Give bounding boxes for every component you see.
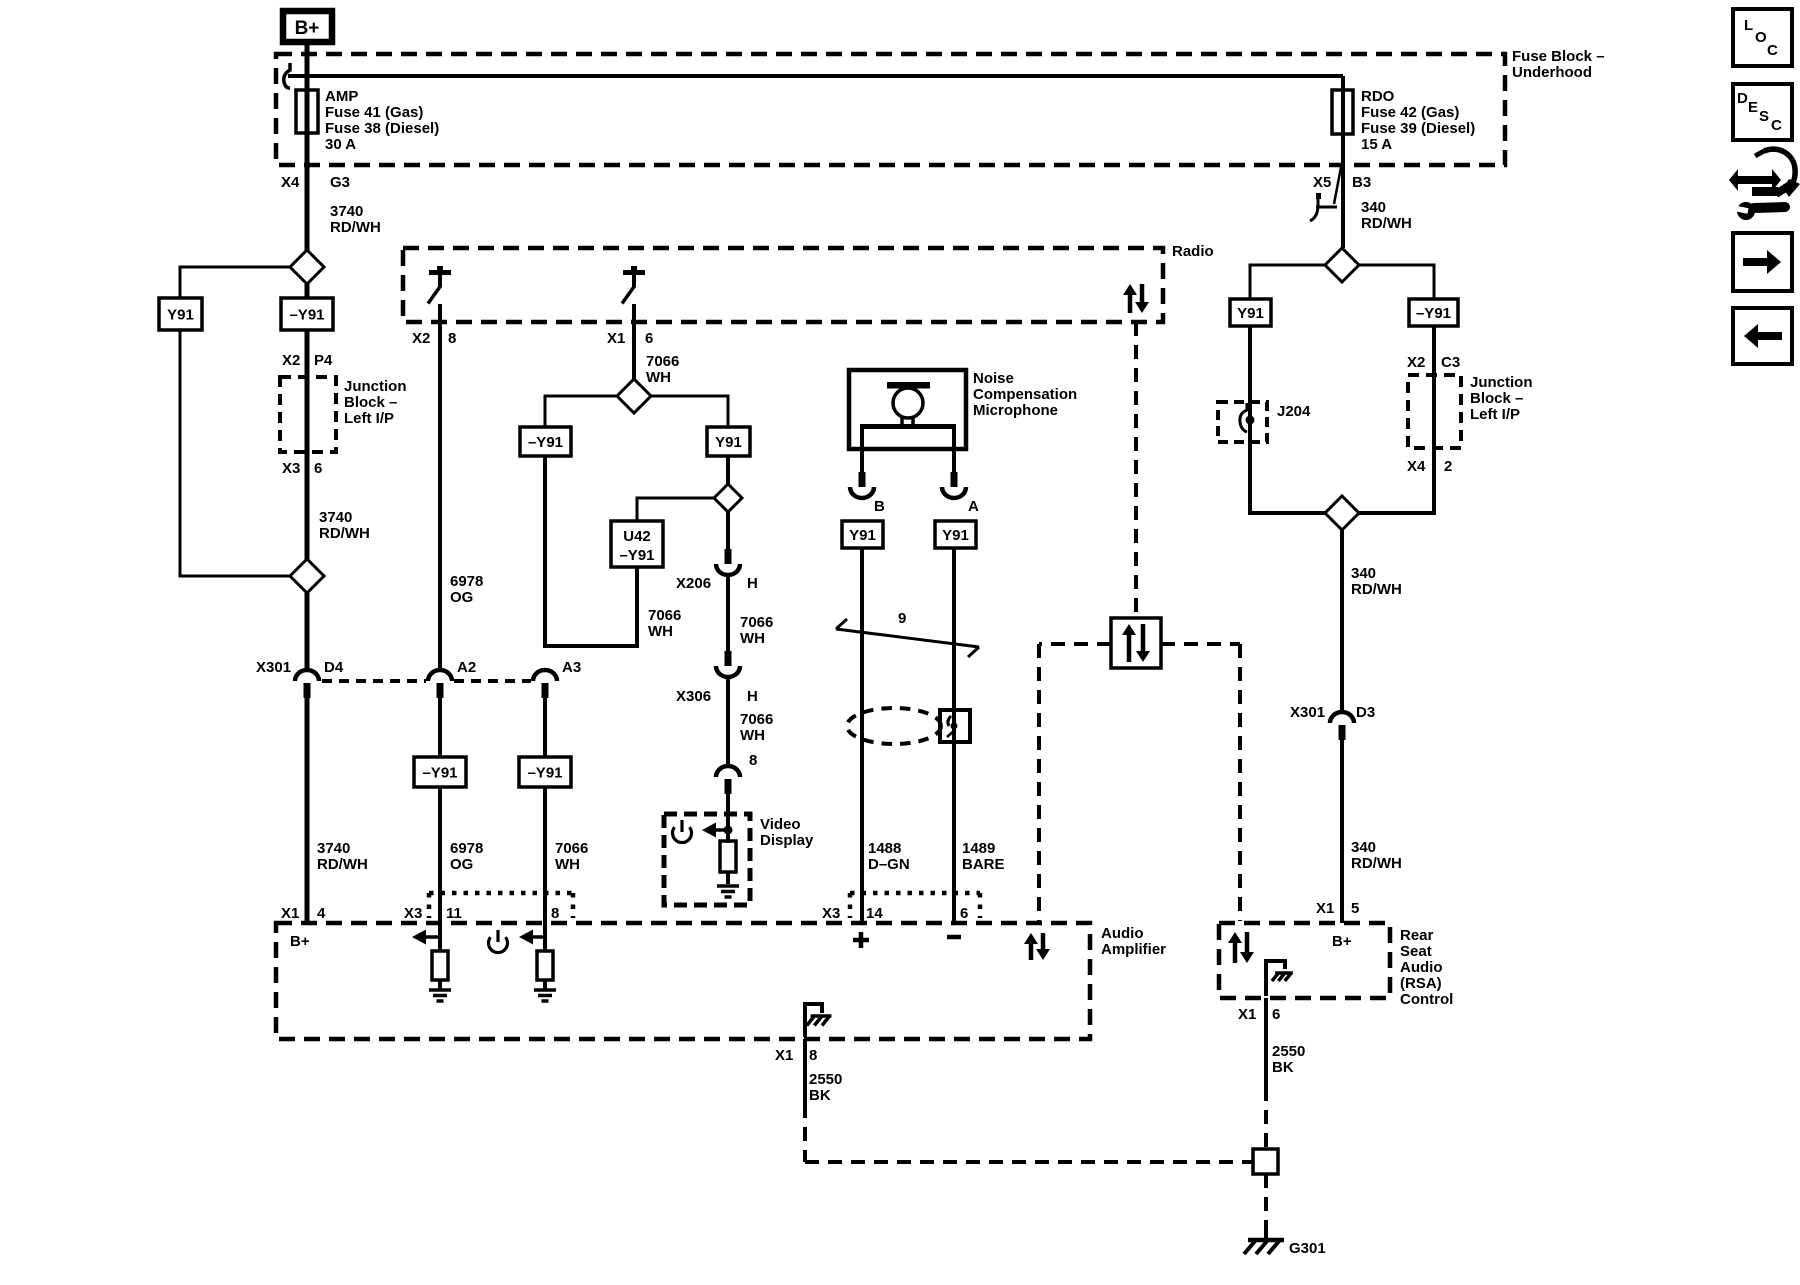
svg-text:S: S <box>1759 108 1769 125</box>
svg-text:WH: WH <box>740 727 765 744</box>
label Noise Compensation Microphone <box>973 370 1077 419</box>
svg-text:J204: J204 <box>1277 403 1311 420</box>
connector X1 pin 8 labels (amplifier ground) <box>775 1047 817 1064</box>
wire 7066 WH to amplifier X3-8 <box>543 787 547 923</box>
radio dashed box <box>403 248 1163 322</box>
wire Y91 right down to S6 <box>1248 326 1252 515</box>
svg-text:7066: 7066 <box>555 840 588 857</box>
svg-text:340: 340 <box>1361 199 1386 216</box>
connector -Y91 box (right) <box>1409 299 1458 326</box>
connector mic pin B label <box>874 498 885 515</box>
svg-text:RD/WH: RD/WH <box>330 219 381 236</box>
wire branch S3 to -Y91 (left) <box>545 396 618 427</box>
svg-text:3740: 3740 <box>319 509 352 526</box>
svg-text:X1: X1 <box>775 1047 793 1064</box>
svg-text:Block –: Block – <box>344 394 397 411</box>
audio amplifier dashed box <box>276 923 1090 1039</box>
wire 1488 D-GN (mic B to amplifier) <box>860 548 864 923</box>
svg-text:L: L <box>1744 17 1753 34</box>
svg-text:Fuse Block –: Fuse Block – <box>1512 48 1605 65</box>
svg-text:B+: B+ <box>295 18 320 39</box>
wire resistor to ground (video) <box>726 872 730 884</box>
twisted pair annotation line <box>836 619 979 657</box>
connector X5 pin B3 labels <box>1313 174 1371 191</box>
connector X1 pin 5 labels (RSA) <box>1316 900 1359 917</box>
wire 7066 WH below A3 <box>543 698 547 757</box>
amplifier pin 8 power symbol <box>488 930 507 953</box>
dashed link left to amplifier <box>1039 644 1111 921</box>
svg-text:8: 8 <box>448 330 456 347</box>
rear seat audio control dashed box <box>1219 923 1390 998</box>
wire Y91 left loop down <box>180 330 291 576</box>
connector Y91 box (left top) <box>159 298 202 330</box>
fuse block bus hook (wire origin symbol) <box>284 63 290 88</box>
svg-text:2: 2 <box>1444 458 1452 475</box>
connector A3 label <box>562 659 581 676</box>
connector mic pin A label <box>968 498 979 515</box>
fuse AMP 30A symbol <box>296 90 318 133</box>
video display pin 8 label <box>749 752 757 769</box>
label Junction Block - Left I/P (left) <box>344 378 407 427</box>
wire into video display <box>726 794 730 843</box>
svg-text:–Y91: –Y91 <box>619 547 654 564</box>
amplifier pin - label <box>947 935 961 940</box>
label wire 7066 WH (X206-X306) <box>740 614 773 647</box>
wire resistor to ground (pin 8) <box>543 980 547 989</box>
label wire 2550 BK (amplifier) <box>809 1071 842 1104</box>
svg-text:C: C <box>1771 117 1782 134</box>
svg-text:X4: X4 <box>281 174 300 191</box>
splice diamond S2 <box>290 559 324 593</box>
video display power arrow <box>702 823 726 838</box>
label J204 <box>1277 403 1311 420</box>
wire -Y91 loop bottom (right) <box>1359 511 1434 515</box>
connector -Y91 box (left top) <box>281 298 333 330</box>
svg-text:RDO: RDO <box>1361 88 1395 105</box>
label wire 2550 BK (RSA) <box>1272 1043 1305 1076</box>
svg-text:Y91: Y91 <box>1237 305 1264 322</box>
splice diamond S4 <box>714 484 742 512</box>
wire fuse block bus (B+ bus to RDO fuse) <box>288 74 1343 78</box>
RSA internal ground lead <box>1266 961 1285 996</box>
splice diamond S5 <box>1325 248 1359 282</box>
svg-text:RD/WH: RD/WH <box>1351 581 1402 598</box>
svg-text:Fuse 42 (Gas): Fuse 42 (Gas) <box>1361 104 1459 121</box>
connector X206 pin H symbol <box>716 549 740 575</box>
amplifier pin 11 arrow <box>412 930 439 945</box>
ground symbol (video display) <box>717 886 739 897</box>
connector -Y91 box (under A2) <box>414 757 466 787</box>
svg-text:1489: 1489 <box>962 840 995 857</box>
svg-text:WH: WH <box>648 623 673 640</box>
label wire 6978 OG (upper) <box>450 573 483 606</box>
svg-text:X3: X3 <box>282 460 300 477</box>
svg-text:E: E <box>1748 99 1758 116</box>
svg-text:X1: X1 <box>1238 1006 1256 1023</box>
svg-text:Audio: Audio <box>1400 959 1443 976</box>
connector X3 dotted box (pins 11,8) <box>429 893 573 918</box>
svg-text:8: 8 <box>551 905 559 922</box>
wire 2550 BK from amplifier <box>803 1039 807 1104</box>
label Radio <box>1172 243 1214 260</box>
splice diamond S1 <box>290 250 324 284</box>
svg-text:7066: 7066 <box>740 614 773 631</box>
svg-text:Noise: Noise <box>973 370 1014 387</box>
svg-text:(RSA): (RSA) <box>1400 975 1442 992</box>
video display pin 8 connector symbol <box>716 766 740 794</box>
wire -Y91 stub from splice S1 <box>305 284 310 298</box>
svg-text:340: 340 <box>1351 839 1376 856</box>
icon arrow right box <box>1733 233 1792 291</box>
battery feed B+ terminal box <box>283 11 332 42</box>
wire 7066 WH from U42 down <box>635 567 639 648</box>
svg-text:H: H <box>747 688 758 705</box>
svg-text:14: 14 <box>866 905 883 922</box>
svg-text:RD/WH: RD/WH <box>1361 215 1412 232</box>
wire 3740 RD/WH through junction block <box>305 330 310 560</box>
svg-text:D–GN: D–GN <box>868 856 910 873</box>
svg-text:Fuse 41 (Gas): Fuse 41 (Gas) <box>325 104 423 121</box>
shield dashed ellipse <box>847 708 941 744</box>
label Junction Block - Left I/P (right) <box>1470 374 1533 423</box>
svg-text:7066: 7066 <box>740 711 773 728</box>
video display dropping resistor <box>720 841 736 872</box>
connector X4 pin G3 labels <box>281 174 350 191</box>
svg-text:D4: D4 <box>324 659 344 676</box>
amplifier pin B+ label <box>290 933 310 950</box>
svg-text:Left I/P: Left I/P <box>1470 406 1520 423</box>
wire amplifier pin 8 internal <box>543 923 547 951</box>
svg-text:X5: X5 <box>1313 174 1331 191</box>
amplifier pin + label <box>853 932 869 948</box>
icon DESC box <box>1733 84 1792 140</box>
svg-text:Y91: Y91 <box>942 527 969 544</box>
icon LOC box <box>1733 9 1792 66</box>
svg-text:RD/WH: RD/WH <box>317 856 368 873</box>
svg-text:X3: X3 <box>822 905 840 922</box>
svg-text:OG: OG <box>450 856 473 873</box>
ground symbol (amplifier pin 8) <box>534 990 556 1001</box>
twisted pair count label 9 <box>898 610 906 627</box>
amplifier pin 8 resistor <box>537 951 553 980</box>
connector A3 symbol <box>533 670 557 698</box>
svg-text:X301: X301 <box>256 659 291 676</box>
svg-text:WH: WH <box>555 856 580 873</box>
amplifier pin 11 resistor <box>432 951 448 980</box>
wire B+ feed vertical (battery to AMP fuse) <box>305 45 310 251</box>
radio connector pin X1-6 symbol <box>622 266 645 304</box>
wire 7066 WH to video display pin 8 <box>726 676 730 768</box>
svg-text:340: 340 <box>1351 565 1376 582</box>
label fuse RDO 15 A <box>1361 88 1475 153</box>
svg-text:WH: WH <box>646 369 671 386</box>
svg-text:X3: X3 <box>404 905 422 922</box>
svg-text:X306: X306 <box>676 688 711 705</box>
wire 1489 BARE (mic A to amplifier) <box>952 548 956 923</box>
wire dashed splice square to G301 <box>1264 1174 1268 1228</box>
connector -Y91 box (under A3) <box>519 757 571 787</box>
video display dashed box <box>664 814 750 905</box>
svg-text:Video: Video <box>760 816 801 833</box>
svg-text:–Y91: –Y91 <box>1416 305 1451 322</box>
svg-text:6: 6 <box>645 330 653 347</box>
label wire 7066 WH (left of U42 wire) <box>648 607 681 640</box>
wire RDO feed vertical <box>1341 76 1345 248</box>
svg-text:Junction: Junction <box>1470 374 1533 391</box>
shield drain connector box <box>940 710 970 742</box>
label Audio Amplifier <box>1101 925 1166 958</box>
wire -Y91 mid down to joint <box>543 456 547 648</box>
svg-text:Underhood: Underhood <box>1512 64 1592 81</box>
label wire 6978 OG (lower) <box>450 840 483 873</box>
svg-text:BARE: BARE <box>962 856 1005 873</box>
wire 3740 RD/WH to X301 D4 <box>305 593 310 670</box>
dashed link right to RSA <box>1161 644 1240 921</box>
label G301 <box>1289 1240 1326 1257</box>
label Fuse Block - Underhood <box>1512 48 1605 81</box>
wire branch to -Y91 (right) <box>1358 265 1434 299</box>
svg-text:A2: A2 <box>457 659 476 676</box>
wire 3740 RD/WH to audio amplifier <box>305 698 310 923</box>
microphone symbol <box>860 382 956 429</box>
label fuse AMP 30 A <box>325 88 439 153</box>
connector X1 pin 6 labels (RSA ground) <box>1238 1006 1280 1023</box>
icon arrow left box <box>1733 308 1792 364</box>
svg-text:X4: X4 <box>1407 458 1426 475</box>
svg-text:Display: Display <box>760 832 814 849</box>
junction block - left I/P dashed box (left) <box>280 377 336 452</box>
svg-text:X1: X1 <box>1316 900 1334 917</box>
icon wrench and arrows <box>1729 149 1800 220</box>
wire Y91 loop bottom (left) <box>1250 511 1327 515</box>
chassis ground symbol (amplifier) <box>807 1016 832 1026</box>
junction block - left I/P dashed box (right) <box>1408 375 1461 448</box>
svg-text:Radio: Radio <box>1172 243 1214 260</box>
connector X1 pin 6 labels (radio) <box>607 330 653 347</box>
connector Y91 box (mic B) <box>842 521 883 548</box>
svg-text:8: 8 <box>809 1047 817 1064</box>
svg-text:C3: C3 <box>1441 354 1460 371</box>
svg-text:2550: 2550 <box>809 1071 842 1088</box>
splice diamond S6 <box>1325 496 1359 530</box>
connector Y91 box (mic A) <box>935 521 976 548</box>
svg-text:–Y91: –Y91 <box>528 434 563 451</box>
connector X206 pin H labels <box>676 575 758 592</box>
label wire 3740 RD/WH (mid left) <box>319 509 370 542</box>
label wire 7066 WH (to video display) <box>740 711 773 744</box>
connector X1 pin 4 labels (amplifier B+) <box>281 905 326 922</box>
svg-text:AMP: AMP <box>325 88 358 105</box>
connector X2 pin C3 labels (junction block right) <box>1407 354 1460 371</box>
svg-text:C: C <box>1767 42 1778 59</box>
svg-text:–Y91: –Y91 <box>289 307 324 324</box>
connector X3 pin 6 labels (junction block left) <box>282 460 322 477</box>
connector X2 pin 8 labels (radio) <box>412 330 456 347</box>
svg-text:X2: X2 <box>1407 354 1425 371</box>
label wire 3740 RD/WH (lower left) <box>317 840 368 873</box>
svg-text:X1: X1 <box>607 330 625 347</box>
svg-text:X1: X1 <box>281 905 299 922</box>
radio bidirectional signal arrows <box>1123 284 1149 313</box>
amplifier internal ground lead <box>805 1004 822 1037</box>
connector X3 pins 11,8 labels <box>404 905 559 922</box>
connector A2 symbol <box>428 670 452 698</box>
svg-text:D3: D3 <box>1356 704 1375 721</box>
label wire 340 RD/WH (lower right) <box>1351 839 1402 872</box>
svg-text:Y91: Y91 <box>167 307 194 324</box>
label wire 7066 WH (lower) <box>555 840 588 873</box>
connector X3 dotted box (pins 14,6) <box>850 893 980 918</box>
video display power symbol <box>673 820 692 843</box>
svg-text:6: 6 <box>960 905 968 922</box>
svg-text:2550: 2550 <box>1272 1043 1305 1060</box>
svg-text:5: 5 <box>1351 900 1359 917</box>
svg-text:RD/WH: RD/WH <box>1351 855 1402 872</box>
wire 340 RD/WH to X301 D3 <box>1340 530 1344 713</box>
connector mic pin A symbol <box>942 472 966 498</box>
wire mic terminal B <box>860 429 864 472</box>
connector Y91 box (right) <box>1230 299 1271 326</box>
svg-text:A: A <box>968 498 979 515</box>
svg-text:RD/WH: RD/WH <box>319 525 370 542</box>
svg-text:30 A: 30 A <box>325 136 356 153</box>
label wire 340 RD/WH (mid right) <box>1351 565 1402 598</box>
label wire 3740 RD/WH (upper left) <box>330 203 381 236</box>
wire resistor to ground (pin 11) <box>438 980 442 989</box>
svg-text:U42: U42 <box>623 528 651 545</box>
noise compensation microphone box <box>849 370 966 449</box>
wire 6978 OG to amplifier X3-11 <box>438 787 442 923</box>
wire branch S4 to U42 <box>637 498 715 521</box>
svg-text:X206: X206 <box>676 575 711 592</box>
svg-text:G301: G301 <box>1289 1240 1326 1257</box>
amplifier bidirectional arrows <box>1024 933 1050 960</box>
svg-text:Amplifier: Amplifier <box>1101 941 1166 958</box>
ground splice square <box>1253 1149 1278 1174</box>
svg-text:6978: 6978 <box>450 573 483 590</box>
amplifier pin 8 arrow <box>519 930 544 945</box>
connector X306 pin H symbol <box>716 651 740 677</box>
svg-text:Seat: Seat <box>1400 943 1432 960</box>
video display wire junction dot <box>724 826 733 835</box>
svg-text:B3: B3 <box>1352 174 1371 191</box>
svg-text:9: 9 <box>898 610 906 627</box>
chassis ground symbol (RSA) <box>1272 973 1293 981</box>
svg-text:G3: G3 <box>330 174 350 191</box>
svg-text:WH: WH <box>740 630 765 647</box>
svg-text:A3: A3 <box>562 659 581 676</box>
connector A2 label <box>457 659 476 676</box>
wire 7066 WH joint to A3 wire <box>545 644 639 648</box>
wire 6978 OG below A2 <box>438 698 442 757</box>
svg-text:H: H <box>747 575 758 592</box>
svg-text:Compensation: Compensation <box>973 386 1077 403</box>
wire 6978 OG from radio X2-8 <box>438 304 442 670</box>
connector X4 pin 2 labels (junction block right) <box>1407 458 1452 475</box>
svg-text:BK: BK <box>809 1087 831 1104</box>
connector U42 -Y91 box <box>611 521 663 567</box>
svg-text:–Y91: –Y91 <box>527 765 562 782</box>
wire 7066 WH X206 to X306 <box>726 574 730 652</box>
svg-text:Block –: Block – <box>1470 390 1523 407</box>
splice diamond S3 <box>617 379 651 413</box>
connector X301 pin D3 symbol <box>1330 712 1354 740</box>
wire branch to Y91 connector (left) <box>180 267 291 298</box>
wire -Y91 right down <box>1432 326 1436 515</box>
svg-text:Fuse 39 (Diesel): Fuse 39 (Diesel) <box>1361 120 1475 137</box>
fuse block - underhood dashed box <box>276 54 1505 165</box>
svg-text:BK: BK <box>1272 1059 1294 1076</box>
radio connector pin X2-8 symbol <box>428 266 451 304</box>
wire 2550 BK from RSA <box>1264 998 1268 1087</box>
svg-text:D: D <box>1737 90 1748 107</box>
wire 7066 WH from radio X1-6 <box>632 304 636 380</box>
svg-text:Rear: Rear <box>1400 927 1434 944</box>
svg-text:7066: 7066 <box>646 353 679 370</box>
svg-text:Y91: Y91 <box>849 527 876 544</box>
ground G301 symbol <box>1244 1224 1284 1254</box>
connector X5 pin B3 symbol <box>1310 167 1341 221</box>
boxed bidirectional arrows (data link) <box>1111 618 1161 668</box>
svg-text:Control: Control <box>1400 991 1453 1008</box>
connector X301 pin D4 symbol <box>295 670 319 698</box>
wire Y91 to splice S4 <box>726 456 730 485</box>
label wire 7066 WH (below radio) <box>646 353 679 386</box>
svg-text:X2: X2 <box>412 330 430 347</box>
svg-text:Microphone: Microphone <box>973 402 1058 419</box>
wire branch to Y91 (right) <box>1250 265 1326 299</box>
connector mic pin B symbol <box>850 472 874 498</box>
inline connector row dashed link D4-A2-A3 <box>322 679 531 683</box>
svg-text:P4: P4 <box>314 352 333 369</box>
RSA bidirectional arrows <box>1228 932 1254 963</box>
svg-text:–Y91: –Y91 <box>422 765 457 782</box>
svg-text:X301: X301 <box>1290 704 1325 721</box>
wire branch S3 to Y91 (right) <box>650 396 728 427</box>
wire mic terminal A <box>952 429 956 472</box>
inline splice J204 dashed box <box>1218 402 1267 442</box>
wire 2550 BK dashed to splice square <box>1264 1087 1268 1149</box>
svg-text:B: B <box>874 498 885 515</box>
label Video Display <box>760 816 814 849</box>
svg-text:Audio: Audio <box>1101 925 1144 942</box>
svg-text:7066: 7066 <box>648 607 681 624</box>
label Rear Seat Audio (RSA) Control <box>1400 927 1453 1008</box>
svg-text:Left I/P: Left I/P <box>344 410 394 427</box>
fuse RDO 15A symbol <box>1332 90 1353 134</box>
svg-text:OG: OG <box>450 589 473 606</box>
wire amplifier pin 11 internal <box>438 923 442 951</box>
svg-text:3740: 3740 <box>330 203 363 220</box>
inline splice J204 symbol <box>1240 403 1255 432</box>
svg-text:X2: X2 <box>282 352 300 369</box>
connector X301 pin D3 labels <box>1290 704 1375 721</box>
label wire 340 RD/WH (upper right) <box>1361 199 1412 232</box>
wire 2550 BK dashed to splice square <box>805 1104 1253 1162</box>
svg-text:6: 6 <box>1272 1006 1280 1023</box>
svg-text:B+: B+ <box>290 933 310 950</box>
wire 340 RD/WH to RSA control <box>1340 740 1344 923</box>
RSA pin B+ label <box>1332 933 1352 950</box>
connector X301 pin D4 labels <box>256 659 344 676</box>
svg-text:1488: 1488 <box>868 840 901 857</box>
label wire 1489 BARE <box>962 840 1005 873</box>
dashed link radio to amplifier/RSA (vertical from radio) <box>1134 322 1138 618</box>
connector Y91 box (mid) <box>707 427 750 456</box>
svg-text:Fuse 38 (Diesel): Fuse 38 (Diesel) <box>325 120 439 137</box>
wire S4 to X206 <box>726 512 730 550</box>
svg-text:8: 8 <box>749 752 757 769</box>
